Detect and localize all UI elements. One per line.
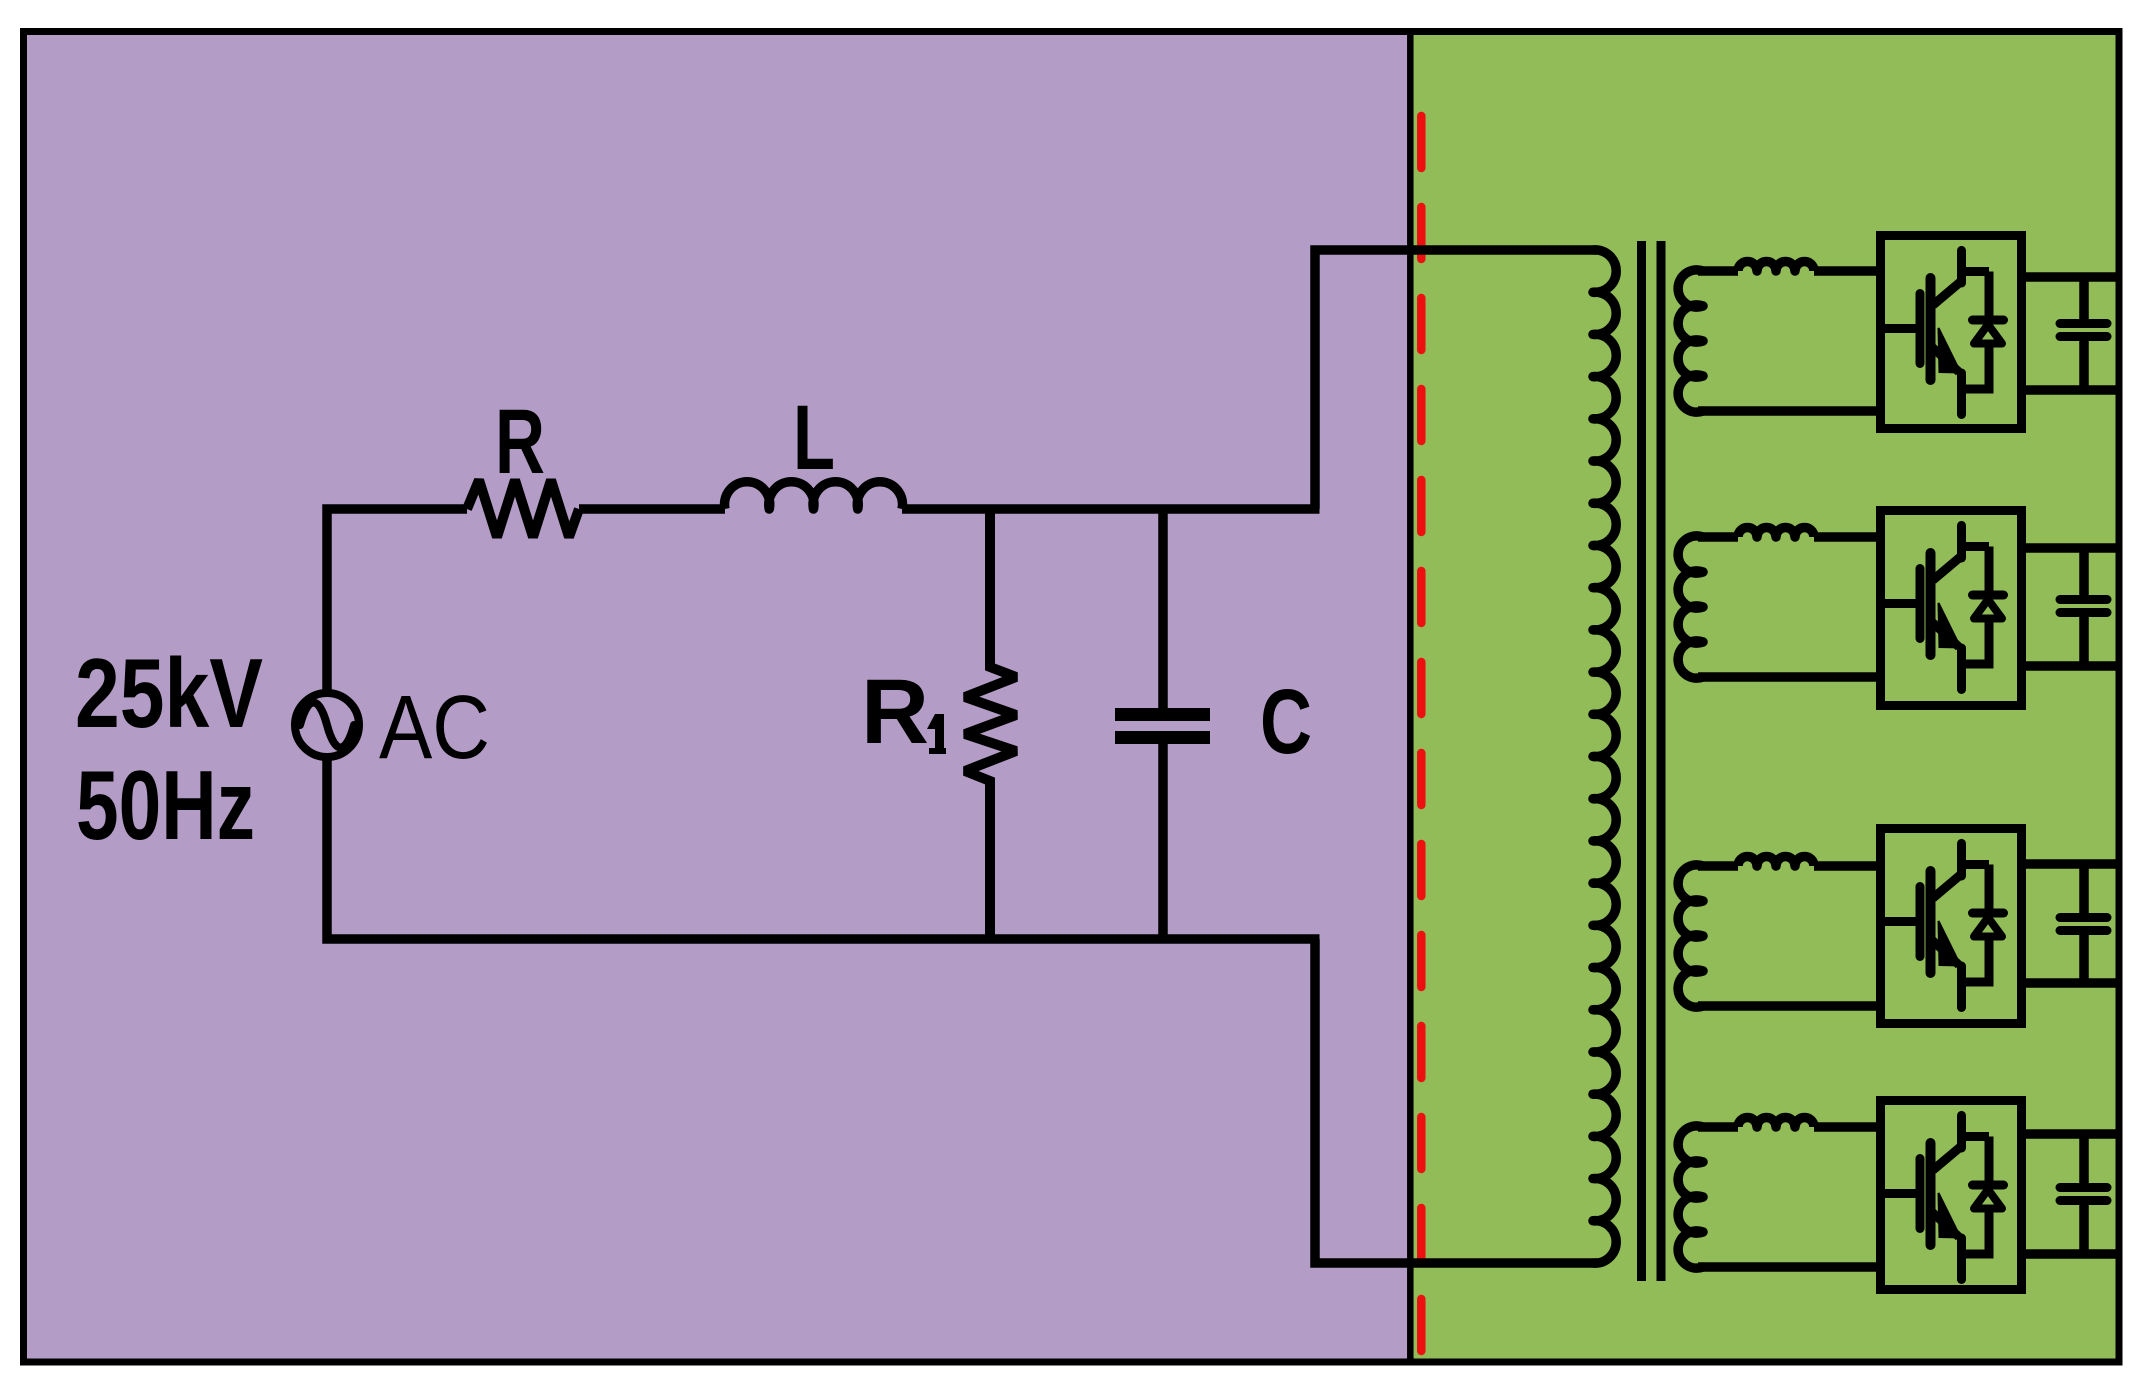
diode D4 cathode bar — [1973, 1181, 2004, 1190]
wire: AC bottom lead + bottom bus — [327, 757, 1320, 939]
IGBT Q3 collector diagonal — [1933, 874, 1962, 898]
wire: collector link — [1962, 860, 1990, 869]
filter inductor L4 bumps — [1738, 1118, 1814, 1128]
IGBT Q2 gate lead — [1885, 599, 1918, 608]
converter box U4 — [1881, 1101, 2022, 1290]
IGBT Q1 channel bar — [1926, 278, 1936, 380]
IGBT Q2 emitter diagonal — [1932, 622, 1959, 647]
IGBT Q3 emitter arrow — [1939, 921, 1961, 966]
secondary winding W4 — [1678, 1126, 1703, 1268]
diode D1 cathode bar — [1973, 316, 2004, 325]
wire: L to jog corner — [902, 504, 1320, 514]
IGBT Q2 gate bar — [1916, 569, 1925, 639]
diode D2 triangle — [1974, 600, 2002, 619]
IGBT Q4 gate bar — [1916, 1159, 1925, 1229]
wire: box to DC bus top — [2021, 1129, 2119, 1139]
filter inductor L2 bumps — [1738, 528, 1814, 538]
transformer core — [1637, 241, 1646, 1281]
DC-link capacitor C1 top lead — [2079, 277, 2089, 321]
IGBT Q4 channel bar — [1926, 1143, 1936, 1245]
filter inductor L1 bumps — [1738, 262, 1814, 272]
svg-text:L: L — [793, 387, 835, 489]
capacitor C plates — [1115, 708, 1210, 721]
wire: winding top to filter inductor — [1698, 1122, 1738, 1132]
DC-link capacitor C2 bottom lead — [2079, 615, 2089, 666]
IGBT Q1 emitter diagonal — [1932, 347, 1959, 372]
svg-text:25kV: 25kV — [75, 638, 263, 748]
converter box U3 — [1881, 829, 2022, 1024]
wire: winding bottom to converter box — [1698, 1001, 1880, 1011]
IGBT Q1 emitter arrow — [1939, 328, 1961, 373]
diode D1 bottom lead — [1962, 344, 1990, 390]
AC source sine symbol — [300, 703, 354, 748]
svg-text:C: C — [1260, 671, 1312, 773]
purple grid-side region — [20, 28, 1410, 1365]
wire: winding bottom to converter box — [1698, 406, 1880, 416]
IGBT Q1 emitter lead — [1957, 373, 1966, 415]
diode D3 bottom lead — [1962, 937, 1990, 983]
IGBT Q3 emitter lead — [1957, 966, 1966, 1008]
inductor L bumps — [725, 482, 903, 509]
transformer primary winding — [1593, 250, 1616, 1263]
DC-link capacitor C2 plates — [2060, 595, 2107, 604]
wire: collector link — [1962, 1132, 1990, 1141]
diode D3 cathode bar — [1973, 909, 2004, 918]
wire: inductor to converter box — [1814, 1122, 1880, 1132]
wire: winding bottom to converter box — [1698, 672, 1880, 682]
svg-text:R: R — [861, 661, 929, 763]
wire: box to DC bus top — [2021, 272, 2119, 282]
DC-link capacitor C3 plates — [2060, 913, 2107, 922]
wire: box to DC bus top — [2021, 859, 2119, 869]
wire: inductor to converter box — [1814, 861, 1880, 871]
wire: box to DC bus bottom — [2021, 1249, 2119, 1259]
IGBT Q1 collector stub — [1957, 250, 1966, 283]
IGBT Q1 gate lead — [1885, 324, 1918, 333]
diode D2 cathode bar — [1973, 591, 2004, 600]
wire: winding top to filter inductor — [1698, 266, 1738, 276]
region divider line — [1407, 32, 1414, 1362]
svg-text:50Hz: 50Hz — [76, 750, 255, 860]
wire: AC top lead + top bus to jog — [327, 509, 467, 693]
diode D2 bottom lead — [1962, 619, 1990, 665]
svg-text:R: R — [495, 391, 545, 493]
secondary winding W3 — [1678, 865, 1703, 1007]
IGBT Q3 channel bar — [1926, 871, 1936, 973]
diode D3 top lead — [1985, 865, 1994, 912]
wire: top jog to transformer primary — [1315, 250, 1597, 509]
wire: inductor to converter box — [1814, 532, 1880, 542]
IGBT Q4 emitter lead — [1957, 1238, 1966, 1280]
DC-link capacitor C4 plates — [2060, 1183, 2107, 1192]
diode D3 triangle — [1974, 918, 2002, 937]
wire: bottom jog to transformer primary — [1315, 939, 1597, 1263]
IGBT Q3 gate lead — [1885, 917, 1918, 926]
IGBT Q2 emitter lead — [1957, 648, 1966, 690]
filter inductor L3 bumps — [1738, 857, 1814, 867]
IGBT Q1 collector diagonal — [1933, 281, 1962, 305]
DC-link capacitor C2 top lead — [2079, 548, 2089, 597]
diode D4 triangle — [1974, 1190, 2002, 1209]
IGBT Q3 collector stub — [1957, 843, 1966, 876]
DC-link capacitor C3 top lead — [2079, 864, 2089, 915]
IGBT Q3 emitter diagonal — [1932, 940, 1959, 965]
secondary winding W1 — [1678, 270, 1703, 412]
IGBT Q2 collector stub — [1957, 525, 1966, 558]
wire: box to DC bus top — [2021, 543, 2119, 553]
wire: inductor to converter box — [1814, 266, 1880, 276]
converter box U2 — [1881, 511, 2022, 706]
IGBT Q2 channel bar — [1926, 553, 1936, 655]
green converter-side region — [1410, 28, 2122, 1365]
IGBT Q4 collector stub — [1957, 1115, 1966, 1148]
wire: box to DC bus bottom — [2021, 385, 2119, 395]
resistor R zigzag — [467, 480, 579, 537]
IGBT Q2 emitter arrow — [1939, 603, 1961, 648]
secondary winding W2 — [1678, 536, 1703, 678]
DC-link capacitor C1 bottom lead — [2079, 339, 2089, 390]
diode D1 top lead — [1985, 272, 1994, 319]
wire: collector link — [1962, 267, 1990, 276]
DC-link capacitor C1 plates — [2060, 319, 2107, 328]
red dashed isolation boundary — [1417, 116, 1426, 1352]
diode D1 triangle — [1974, 325, 2002, 344]
resistor R1 vertical zigzag — [965, 509, 1016, 939]
IGBT Q2 collector diagonal — [1933, 556, 1962, 580]
wire: winding bottom to converter box — [1698, 1262, 1880, 1272]
wire: winding top to filter inductor — [1698, 861, 1738, 871]
IGBT Q4 gate lead — [1885, 1189, 1918, 1198]
IGBT Q4 emitter arrow — [1939, 1193, 1961, 1238]
IGBT Q4 emitter diagonal — [1932, 1212, 1959, 1237]
diode D4 bottom lead — [1962, 1209, 1990, 1255]
IGBT Q1 gate bar — [1916, 294, 1925, 364]
IGBT Q3 gate bar — [1916, 887, 1925, 957]
svg-text:AC: AC — [379, 678, 490, 778]
converter box U1 — [1881, 236, 2022, 429]
diode D2 top lead — [1985, 547, 1994, 594]
wire: between R and L — [579, 504, 725, 514]
capacitor C leads — [1158, 509, 1168, 710]
IGBT Q4 collector diagonal — [1933, 1146, 1962, 1170]
diode D4 top lead — [1985, 1137, 1994, 1184]
AC source V1 circle — [295, 693, 359, 757]
wire: collector link — [1962, 542, 1990, 551]
wire: box to DC bus bottom — [2021, 661, 2119, 671]
wire: winding top to filter inductor — [1698, 532, 1738, 542]
DC-link capacitor C4 top lead — [2079, 1134, 2089, 1185]
DC-link capacitor C4 bottom lead — [2079, 1203, 2089, 1254]
wire: box to DC bus bottom — [2021, 978, 2119, 988]
DC-link capacitor C3 bottom lead — [2079, 933, 2089, 983]
